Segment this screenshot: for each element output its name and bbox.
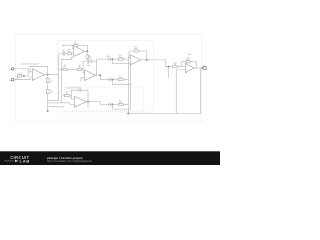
wire cluster2 lower: [113, 104, 131, 109]
svg-text:http://circuitlab.com/c/dpkbq3: http://circuitlab.com/c/dpkbq3wwvb: [47, 159, 92, 163]
feedback wire OA6: [181, 62, 197, 68]
node OA5 out: [146, 59, 149, 62]
wire vertical L2: [60, 59, 62, 103]
capacitor C2: [78, 87, 81, 92]
resistor R7: [63, 65, 68, 71]
wire node dangle: [167, 67, 169, 78]
wire into C1: [59, 53, 64, 55]
capacitor C4: [109, 103, 111, 106]
source V1: [9, 68, 14, 72]
schematic background: [0, 0, 220, 165]
wire bus1: [128, 57, 130, 113]
wire OA3 output: [96, 75, 109, 79]
op-amp OA5: [130, 55, 141, 65]
feedback resistor R9: [87, 60, 92, 67]
wire OA5 output: [141, 59, 166, 61]
op-amp OA3: [85, 70, 96, 81]
resistor R14: [172, 62, 177, 67]
capacitor C3: [109, 78, 111, 81]
feedback wire OA2: [72, 45, 87, 51]
wire OA2 bias: [61, 57, 74, 59]
wire OA4 plus: [61, 103, 74, 105]
node OA3 out: [99, 74, 102, 77]
wire R10 to OA4 minus: [70, 96, 75, 99]
wire stage3 rail: [83, 60, 97, 62]
op-amp OA6: [185, 63, 194, 73]
wire OA5 out to R14: [166, 60, 173, 67]
resistor R1: [18, 73, 23, 77]
wire output down: [200, 68, 202, 114]
op-amp OA4: [74, 96, 86, 107]
feedback wire OA1: [30, 66, 48, 74]
svg-text:LAB: LAB: [20, 158, 31, 163]
wire divider chain: [47, 75, 49, 111]
inner dashed box low-pass section: [64, 87, 144, 111]
wire C1 to R4: [65, 53, 68, 55]
wire R12 to bus1: [123, 103, 128, 105]
wire OA1 minus bend: [29, 71, 33, 73]
wire V2 tap to R1: [16, 76, 19, 80]
resistor R11: [118, 76, 123, 81]
wire V2 to OA1 plus input: [14, 78, 32, 80]
resistor R10: [65, 92, 70, 97]
node bus bottom: [127, 112, 130, 115]
op-amp OA1: [32, 69, 44, 81]
resistor R2: [46, 78, 52, 83]
resistor R8: [77, 65, 82, 71]
node output: [201, 67, 204, 70]
node A: [23, 75, 26, 78]
wire OA1 output: [44, 74, 58, 76]
resistor R15: [186, 58, 190, 63]
logo resistor zigzag: [4, 160, 14, 162]
wire C3 to R11: [110, 79, 118, 81]
wire R1 to node: [22, 75, 29, 77]
wire OA6 output: [194, 67, 202, 69]
node cluster2: [111, 103, 114, 106]
node OA4 out: [87, 100, 90, 103]
resistor R13: [134, 46, 138, 52]
logo arrow: [15, 160, 18, 163]
wire R16 to bus1: [123, 58, 128, 60]
wire OA6 plus: [176, 70, 185, 114]
feedback wire OA5: [129, 51, 147, 60]
wire R14 to OA6: [177, 66, 185, 68]
wire cluster1 lower: [113, 80, 131, 85]
outer dashed enclosure: [16, 34, 202, 122]
wire V1 to OA1 inverting input: [14, 69, 29, 76]
wire vertical L1: [58, 54, 60, 101]
wire OA4 down stub: [87, 102, 89, 108]
wire into R7: [59, 68, 63, 70]
wire C5 to R16: [110, 58, 118, 60]
ground node: [46, 110, 49, 113]
feedback wire OA3 right leg: [96, 59, 98, 75]
resistor R4: [68, 49, 72, 55]
node OA1 out: [46, 73, 49, 76]
wire OA2 out down: [86, 51, 88, 61]
feedback wire OA3 left leg: [83, 61, 84, 72]
wire cluster0 lower: [113, 59, 131, 64]
resistor R12: [118, 100, 123, 105]
wire bus2: [129, 63, 131, 110]
node OA2 out: [86, 50, 89, 53]
node cluster1: [111, 78, 114, 81]
node cluster0: [111, 58, 114, 61]
wire R8 to OA3 minus: [82, 68, 83, 70]
inner dashed box high-pass section: [57, 41, 153, 112]
wire R4 to OA2: [72, 53, 74, 55]
wire into R10: [63, 95, 65, 97]
resistor R16: [118, 55, 123, 60]
wire ground rail bottom: [128, 113, 200, 115]
tap wire 2: [48, 102, 62, 104]
resistor R3: [46, 89, 52, 94]
tap wire 1: [48, 100, 59, 102]
wire OA4 output: [86, 102, 109, 105]
capacitor C5: [106, 54, 110, 60]
wire OA3 plus stub: [81, 78, 85, 82]
source V2: [9, 78, 14, 82]
resistor R6: [86, 55, 92, 59]
footer bar: [0, 151, 220, 165]
output terminal: [203, 64, 206, 70]
feedback wire OA4: [71, 90, 88, 102]
tap wire 3: [48, 106, 64, 108]
wire C4 to R12: [110, 103, 118, 105]
wire R7 to R8: [68, 68, 78, 70]
op-amp OA2: [74, 46, 85, 57]
wire OA2 output: [85, 50, 89, 52]
node input OA6: [167, 65, 170, 68]
capacitor C1: [62, 49, 66, 55]
resistor R5: [74, 41, 78, 46]
wire OA3 out to cluster0: [97, 58, 109, 60]
wire R11 to bus1: [123, 79, 128, 81]
